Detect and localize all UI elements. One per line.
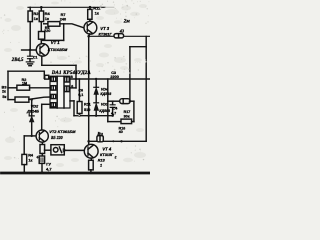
label VD4 KD503 <box>100 88 111 97</box>
label R13 1k <box>93 5 101 15</box>
op-amp U1 DA1 box <box>50 76 70 108</box>
transistor VT1 <box>36 44 49 57</box>
zener diode VD2 <box>29 100 34 136</box>
svg-text:510: 510 <box>84 108 90 112</box>
svg-text:2к: 2к <box>2 90 6 94</box>
wire left bus <box>7 71 9 99</box>
wire bottom ground rail <box>2 172 151 175</box>
pin box 4 <box>51 103 56 107</box>
diode VD3 <box>94 103 99 116</box>
label C3 2200 <box>110 71 118 79</box>
svg-text:1к: 1к <box>95 11 99 16</box>
wire top bus faint tail <box>105 6 114 8</box>
svg-text:VT 4: VT 4 <box>102 147 112 152</box>
wire op-amp pin to rail <box>70 101 74 116</box>
label R13 1 <box>98 158 106 167</box>
wire feedback lower rail <box>87 140 146 143</box>
svg-text:1: 1 <box>100 163 102 167</box>
svg-text:5к: 5к <box>2 95 6 99</box>
svg-text:Вч: Вч <box>96 131 103 136</box>
label R11 510 <box>84 102 91 111</box>
wire right bus from output down <box>145 37 147 142</box>
wire VT1 collector feedback <box>41 24 63 41</box>
svg-text:1к: 1к <box>45 16 49 21</box>
wire op-amp pin stub <box>70 87 76 89</box>
wire emitter to op-amp pin <box>42 65 76 88</box>
svg-text:2В4,5: 2В4,5 <box>11 58 24 63</box>
resistor R3 to pin 3 <box>8 97 50 102</box>
svg-text:R17: R17 <box>124 110 131 114</box>
label C4 4,7 <box>111 107 118 116</box>
wire VT4 base <box>65 149 85 151</box>
svg-text:КТ3102БМ: КТ3102БМ <box>48 47 68 52</box>
pin box 6 <box>65 86 70 92</box>
node rail junctions <box>23 172 92 174</box>
label R4 1k <box>28 154 34 163</box>
wire VT3 emitter to output node <box>88 34 91 36</box>
label C6 0,1 <box>78 88 83 96</box>
wire right mid bus <box>107 79 109 122</box>
wire top supply bus <box>28 6 105 8</box>
resistor R4 lower <box>22 136 27 173</box>
svg-text:VT 1: VT 1 <box>51 40 61 45</box>
resistor R2 (input divider top left) <box>28 7 32 50</box>
svg-text:КТ315Г: КТ315Г <box>100 153 114 157</box>
scan noise <box>1 0 150 167</box>
svg-text:1к: 1к <box>34 16 38 21</box>
label R3 left edge <box>2 86 8 100</box>
wire vertical bus VT3 to VT4 <box>88 36 90 145</box>
ground symbol <box>26 62 34 66</box>
svg-text:220: 220 <box>44 29 50 33</box>
svg-text:С1: С1 <box>33 55 37 59</box>
svg-text:R5 220: R5 220 <box>51 135 63 140</box>
resistor R7 horizontal <box>44 22 84 28</box>
wire output rail right <box>89 35 150 37</box>
svg-text:R11: R11 <box>84 102 91 106</box>
diode VD4 <box>94 79 99 103</box>
label VT1 <box>48 40 68 52</box>
label R7 240 <box>60 13 66 21</box>
label R17 30k <box>124 110 131 119</box>
wire VT1 base input <box>22 49 37 52</box>
label VD2 D814B <box>26 104 39 114</box>
label R1 <box>22 78 28 86</box>
wire inner right bus <box>129 47 131 101</box>
label C7 47 <box>46 161 52 171</box>
wire op-amp pin4 to VT2 collector <box>42 104 50 130</box>
paper background <box>0 0 150 178</box>
transistor VT3 <box>84 21 97 34</box>
svg-text:30к: 30к <box>124 115 130 119</box>
node output junction <box>87 35 90 38</box>
capacitor C4 polar <box>110 101 115 116</box>
resistor R17 30k <box>108 119 134 124</box>
label VD3 KD503 <box>99 103 110 113</box>
wire VT2 base <box>24 135 36 137</box>
resistor R11 510 <box>77 79 82 116</box>
resistor R13 top right <box>88 6 92 22</box>
resistor R1 to pin 2 <box>8 85 50 90</box>
svg-text:4,7: 4,7 <box>46 166 52 171</box>
trimmer R8 box <box>45 145 67 155</box>
svg-text:240: 240 <box>60 17 66 21</box>
wire op-amp supply pin top left <box>8 71 50 79</box>
resistor R5 VT2 emitter <box>40 142 45 156</box>
resistor R4 (second divider) <box>39 6 43 22</box>
capacitor C7 on output wire <box>114 34 124 38</box>
svg-text:R13: R13 <box>98 158 106 162</box>
label VT4 <box>100 147 114 157</box>
svg-text:г: г <box>115 155 117 160</box>
svg-text:1к: 1к <box>28 158 32 162</box>
wire op-amp output rail <box>70 78 150 80</box>
svg-text:КД503: КД503 <box>100 92 111 96</box>
svg-text:VT 3: VT 3 <box>100 26 110 31</box>
wire corner branch <box>130 46 146 48</box>
svg-text:Д814Б: Д814Б <box>26 109 39 114</box>
svg-text:40: 40 <box>119 130 123 134</box>
svg-text:0,1: 0,1 <box>78 93 83 97</box>
capacitor C5 oval <box>108 99 134 104</box>
pin box 1 <box>51 77 56 82</box>
label R6 220 <box>44 26 50 33</box>
svg-text:С6: С6 <box>78 88 83 92</box>
label VT3 <box>99 26 113 37</box>
pin box 3 <box>51 94 56 98</box>
node zener tap <box>31 99 33 101</box>
svg-text:4З: 4З <box>119 28 125 33</box>
capacitor C6 on wire <box>97 136 103 142</box>
pin box 2 <box>51 86 56 90</box>
pin box 5 <box>65 77 70 82</box>
resistor R13 emitter <box>89 158 94 173</box>
label R16 <box>119 126 126 134</box>
svg-text:VD4: VD4 <box>101 88 108 92</box>
svg-text:4,7: 4,7 <box>111 112 116 116</box>
wire node rail y116 <box>74 115 114 117</box>
transistor VT4 <box>84 144 98 158</box>
svg-text:1М: 1М <box>22 82 27 86</box>
resistor R6 (VT1 collector) <box>39 22 45 44</box>
svg-text:2200: 2200 <box>110 75 118 79</box>
capacitor C4 emitter <box>37 156 45 173</box>
wire VT1 emitter down <box>41 56 43 65</box>
svg-text:VT2 КТ361БМ: VT2 КТ361БМ <box>49 129 76 134</box>
wire right link <box>133 101 135 121</box>
capacitor C1 to ground <box>28 50 33 62</box>
transistor VT2 <box>36 130 48 142</box>
label R4 value <box>45 11 51 21</box>
svg-text:2м: 2м <box>123 19 131 25</box>
label R2 value <box>33 11 39 21</box>
